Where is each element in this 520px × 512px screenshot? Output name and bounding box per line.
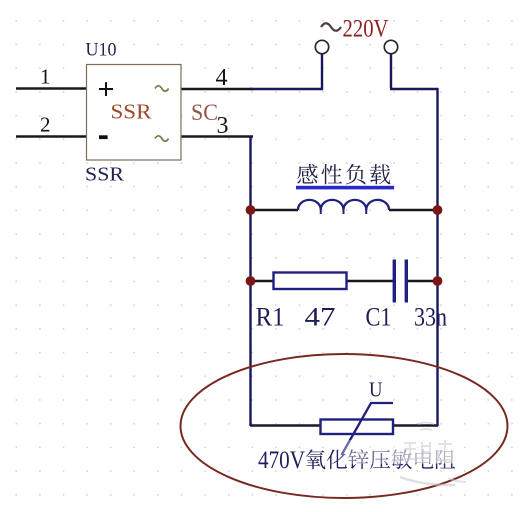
- svg-text:C1: C1: [366, 303, 392, 332]
- svg-text:U: U: [369, 378, 383, 402]
- svg-text:470V: 470V: [258, 447, 305, 474]
- svg-text:SSR: SSR: [111, 100, 153, 124]
- svg-text:R1: R1: [256, 303, 285, 332]
- svg-text:3: 3: [217, 113, 229, 139]
- svg-text:2: 2: [40, 113, 51, 137]
- svg-text:1: 1: [40, 65, 51, 89]
- svg-text:U10: U10: [86, 40, 117, 61]
- svg-text:47: 47: [305, 303, 336, 332]
- svg-text:4: 4: [216, 65, 228, 91]
- svg-text:33n: 33n: [414, 303, 447, 332]
- svg-text:SC: SC: [191, 100, 218, 125]
- svg-text:SSR: SSR: [85, 164, 125, 186]
- svg-text:220V: 220V: [343, 16, 389, 43]
